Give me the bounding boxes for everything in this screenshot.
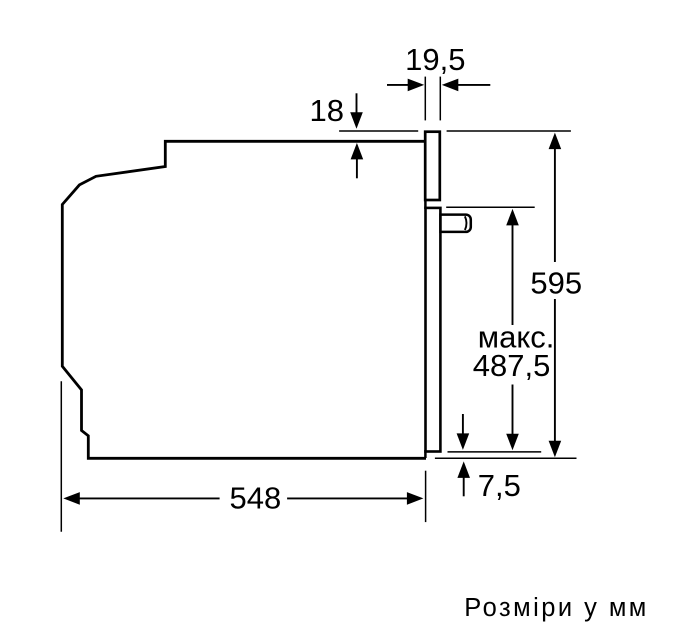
oven body profile [62, 141, 426, 458]
dimension 487,5 top extension line [446, 206, 535, 208]
dimension 548 right extension line [425, 471, 427, 522]
dimension 19,5 extension line left [424, 77, 426, 121]
svg-text:595: 595 [530, 265, 582, 300]
dimension 19,5 right arrow [442, 79, 459, 92]
dimension 487,5 top arrow [506, 209, 519, 226]
knob [441, 215, 471, 232]
dimension 595 top arrow [549, 133, 562, 150]
svg-text:Розміри у мм: Розміри у мм [464, 594, 648, 622]
bottom extension line for 595 and 7,5 [435, 457, 577, 459]
dimension 19,5 extension line right [439, 77, 441, 121]
door bottom extension line [448, 451, 542, 453]
front strip left edge connector (door to body bottom) [424, 450, 427, 458]
oven door strip [426, 208, 441, 452]
dimension 7,5 lower up arrow [457, 461, 470, 478]
dimension 548 left extension line [60, 381, 62, 532]
dimension 595 lower shaft and bottom arrow [554, 299, 556, 442]
dimension 18 up arrow [351, 143, 364, 160]
knob end cap arc [465, 216, 467, 230]
dimension 548 left arrow [63, 492, 80, 505]
svg-text:18: 18 [310, 93, 344, 128]
dimension 487,5 lower shaft and bottom arrow [512, 385, 514, 435]
svg-text:19,5: 19,5 [405, 42, 465, 77]
svg-text:7,5: 7,5 [478, 468, 521, 503]
dimension 18 extension line [339, 130, 418, 132]
svg-text:487,5: 487,5 [473, 348, 551, 383]
front strip left edge connector (frame to door) [424, 199, 427, 209]
dimension 19,5 left arrow [387, 84, 409, 86]
dimension 18 down arrow [356, 93, 358, 114]
front control panel strip [425, 132, 440, 200]
svg-text:548: 548 [230, 481, 282, 516]
dimension 7,5 upper down arrow [462, 414, 464, 435]
dimension 548 right arrow [287, 497, 407, 499]
dimension 595 top extension line [447, 130, 571, 132]
